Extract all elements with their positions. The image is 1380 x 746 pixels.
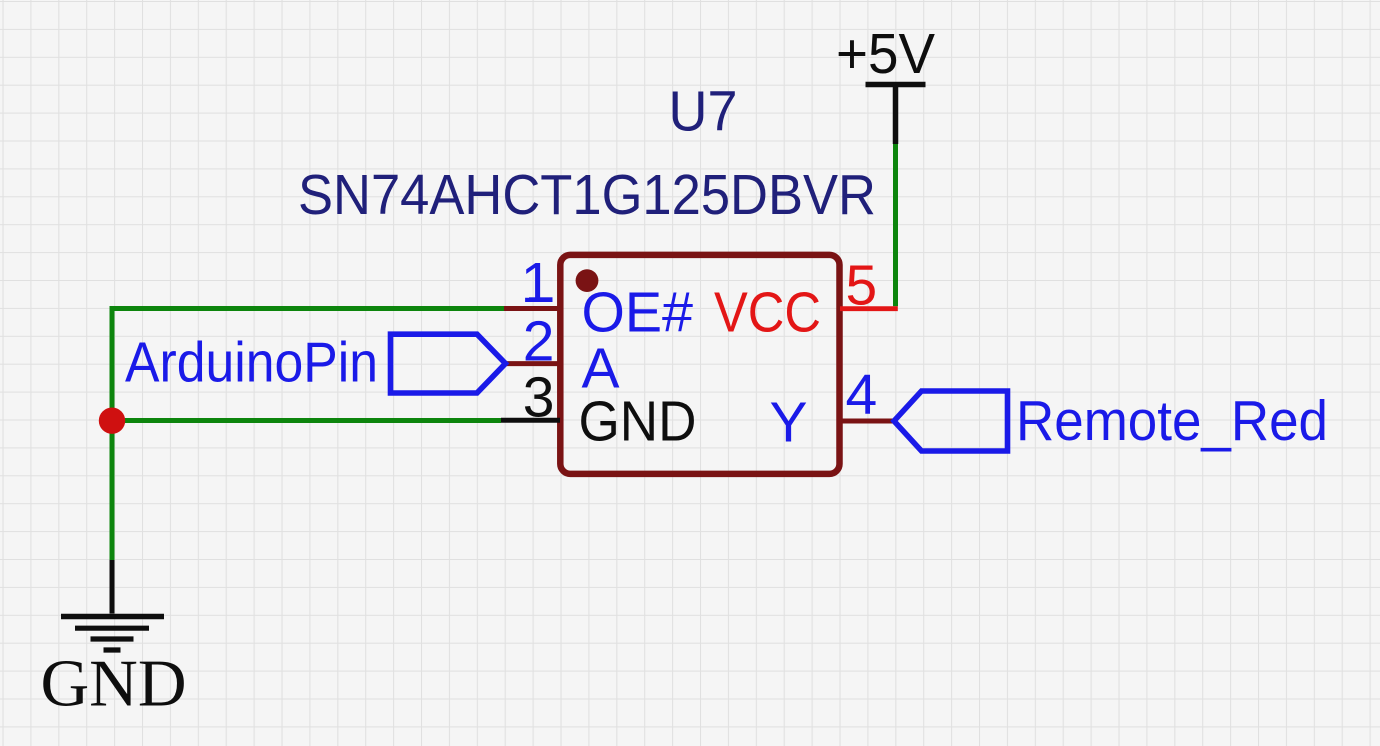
svg-text:GND: GND <box>41 647 187 721</box>
svg-text:Remote_Red: Remote_Red <box>1016 389 1328 453</box>
svg-text:VCC: VCC <box>714 280 821 344</box>
svg-text:OE#: OE# <box>582 280 694 344</box>
netport Remote_Red flag <box>894 391 1008 451</box>
svg-text:2: 2 <box>523 310 555 374</box>
wire net ArduinoGND: green from pin1 left, down to junction, continues to GND <box>112 309 504 561</box>
svg-text:Y: Y <box>769 390 807 454</box>
netport ArduinoPin flag <box>391 334 506 393</box>
svg-text:GND: GND <box>579 390 697 454</box>
svg-text:3: 3 <box>523 365 555 429</box>
svg-text:1: 1 <box>521 251 553 315</box>
svg-text:ArduinoPin: ArduinoPin <box>125 331 378 395</box>
svg-text:5: 5 <box>846 253 878 317</box>
wire +5V: green vertical from power symbol to pin 5 <box>893 144 898 306</box>
op IC U7 body <box>560 255 839 474</box>
pin-1 orientation dot <box>576 269 599 292</box>
pin 3 stub <box>501 418 560 423</box>
pin 1 stub <box>504 306 560 311</box>
svg-text:4: 4 <box>846 363 878 427</box>
pin 2 stub <box>506 361 560 366</box>
svg-text:SN74AHCT1G125DBVR: SN74AHCT1G125DBVR <box>298 163 876 227</box>
svg-text:U7: U7 <box>669 80 738 144</box>
pin 5 stub <box>840 306 898 311</box>
junction dot <box>99 408 125 434</box>
pin number 1 <box>521 251 553 315</box>
ground symbol GND <box>41 560 187 721</box>
pin 4 stub <box>840 419 894 424</box>
svg-text:+5V: +5V <box>836 22 935 86</box>
power symbol +5V <box>836 22 935 144</box>
